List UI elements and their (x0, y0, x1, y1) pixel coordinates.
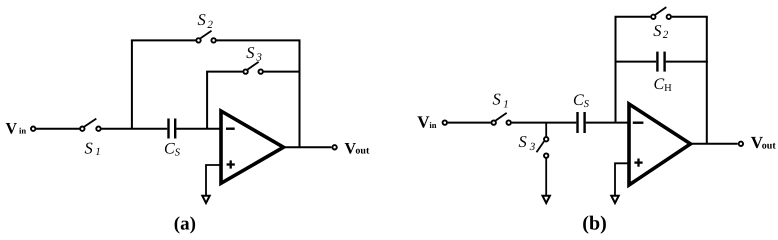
wire inner loop left segment (a) (206, 71, 243, 73)
svg-text:1: 1 (503, 99, 509, 111)
switch S1 (a) (80, 119, 101, 131)
wire top loop right segment (b) (672, 16, 708, 18)
wire top-loop left vertical (a) (131, 40, 133, 128)
wire output (a) (284, 146, 331, 148)
svg-text:S: S (493, 89, 501, 108)
label S1 (a) (85, 139, 101, 159)
op-amp U2 (b) (629, 104, 691, 185)
wire CH loop left segment (b) (616, 61, 657, 63)
wire CS to op-amp (a) (176, 128, 220, 130)
wire S3 branch vertical (b) (545, 123, 547, 137)
switch S3 (b) (537, 137, 549, 158)
label Vout (b) (751, 133, 777, 152)
svg-text:S: S (85, 139, 93, 158)
ground (a) (202, 196, 209, 203)
label Vout (a) (345, 141, 370, 158)
plus input marker (a) (227, 160, 235, 168)
svg-text:S: S (584, 99, 590, 110)
svg-text:S: S (175, 147, 181, 158)
op-amp U1 (a) (221, 111, 284, 183)
svg-text:3: 3 (255, 51, 262, 63)
svg-text:out: out (762, 140, 777, 151)
label CS (a) (164, 141, 181, 159)
wire feedback right vertical (a) (299, 40, 301, 147)
label S2 (b) (653, 21, 669, 41)
svg-text:2: 2 (207, 19, 213, 31)
switch S2 (b) (651, 7, 671, 19)
wire feedback left vertical (b) (615, 17, 617, 123)
label Vin (b) (417, 113, 437, 132)
wire output (b) (691, 143, 738, 145)
svg-text:S: S (519, 132, 527, 151)
wire top loop right segment (a) (217, 39, 301, 41)
svg-text:C: C (573, 92, 584, 109)
switch S1 (b) (492, 113, 511, 125)
label S3 (a) (246, 43, 262, 64)
wire Vin to S1 (a) (36, 128, 79, 130)
wire S3 to ground (b) (545, 159, 547, 196)
svg-text:S: S (246, 43, 254, 62)
capacitor CS (a) (167, 119, 176, 139)
label S3 (b) (519, 132, 536, 153)
label Vin (a) (6, 120, 27, 137)
svg-text:C: C (164, 141, 175, 158)
svg-text:S: S (198, 10, 206, 29)
wire feedback right vertical (b) (706, 17, 708, 144)
input terminal (a) (31, 127, 35, 131)
svg-text:in: in (429, 120, 436, 130)
wire S1 to CS (a) (101, 128, 167, 130)
wire CS to op-amp (b) (586, 122, 628, 124)
wire S1 to CS (b) (512, 122, 577, 124)
label CS (b) (573, 92, 590, 110)
label CH (b) (654, 76, 673, 94)
svg-text:2: 2 (663, 29, 669, 41)
svg-text:V: V (6, 120, 18, 137)
input terminal (b) (443, 120, 447, 124)
capacitor CS (b) (576, 112, 586, 133)
switch S2 (a) (196, 31, 216, 43)
svg-text:H: H (664, 83, 672, 94)
label S1 (b) (493, 89, 509, 110)
svg-text:C: C (654, 76, 665, 93)
wire plus input to ground (a) (206, 165, 221, 195)
svg-text:in: in (19, 126, 26, 136)
minus input marker (b) (633, 121, 644, 123)
wire Vin to S1 (b) (448, 122, 491, 124)
capacitor CH (b) (656, 52, 666, 72)
svg-text:V: V (417, 113, 430, 132)
label S2 (a) (198, 10, 214, 31)
output terminal (b) (739, 142, 743, 146)
svg-text:S: S (653, 21, 661, 40)
wire inner-loop left vertical (a) (206, 72, 208, 129)
wire inner loop right segment (a) (264, 71, 301, 73)
ground op-amp (b) (611, 196, 618, 203)
wire top loop left segment (b) (615, 16, 651, 18)
svg-text:(a): (a) (174, 214, 196, 235)
wire top loop left segment (a) (131, 39, 196, 41)
minus input marker (a) (226, 127, 235, 129)
svg-text:1: 1 (95, 146, 101, 158)
wire CH loop right segment (b) (666, 61, 708, 63)
wire plus input to ground (b) (615, 163, 629, 195)
svg-text:(b): (b) (582, 213, 606, 235)
ground S3 (b) (543, 196, 550, 203)
switch S3 (a) (243, 62, 262, 74)
output terminal (a) (332, 145, 336, 149)
plus input marker (b) (634, 159, 642, 167)
svg-text:3: 3 (529, 141, 536, 153)
svg-text:out: out (355, 145, 370, 156)
